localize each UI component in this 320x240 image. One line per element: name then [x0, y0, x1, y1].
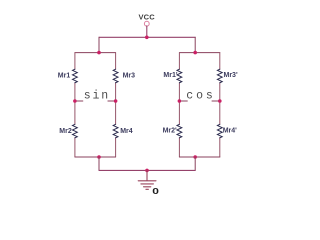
wire left bridge top feed — [98, 37, 100, 52]
resistor Mr4 — [113, 124, 118, 138]
wire right bridge left vertical — [178, 53, 180, 157]
wire right bridge top rail — [179, 52, 219, 54]
wire right bridge bottom feed — [194, 157, 196, 170]
wire top distribution rail — [99, 36, 195, 38]
ground — [138, 170, 156, 189]
wire left bridge bottom rail — [75, 156, 116, 158]
node right bridge bottom — [193, 155, 197, 159]
VCC terminal circle — [144, 21, 149, 26]
resistor Mr2 — [73, 124, 78, 138]
wire sin+ stub — [77, 100, 83, 102]
wire cos- stub — [212, 100, 218, 102]
wire left bridge left vertical — [74, 53, 76, 157]
svg-text:0: 0 — [152, 188, 159, 197]
node sin- — [114, 99, 118, 103]
resistor Mr1' — [177, 69, 182, 83]
svg-text:Mr2: Mr2 — [59, 128, 72, 135]
wire right bridge bottom rail — [179, 156, 219, 158]
svg-text:Mr4: Mr4 — [120, 128, 133, 135]
svg-text:Mr4': Mr4' — [223, 128, 237, 135]
resistor Mr2' — [177, 124, 182, 138]
resistor Mr3 — [113, 69, 118, 83]
node sin+ — [73, 99, 77, 103]
resistor Mr3' — [217, 69, 222, 83]
node cos- — [218, 99, 222, 103]
node cos+ — [178, 99, 182, 103]
wire left bridge right vertical — [115, 53, 117, 157]
wire VCC stem — [146, 26, 148, 37]
node right bridge top — [193, 51, 197, 55]
wire left bridge top rail — [75, 52, 116, 54]
wire bottom ground rail — [99, 169, 195, 171]
svg-text:Mr3: Mr3 — [123, 73, 136, 80]
wire right bridge top feed — [194, 37, 196, 52]
svg-text:Mr3': Mr3' — [224, 72, 238, 79]
wire right bridge right vertical — [219, 53, 221, 157]
node left bridge bottom — [97, 155, 101, 159]
wire left bridge bottom feed — [98, 157, 100, 170]
svg-text:VCC: VCC — [138, 12, 155, 21]
svg-text:sin: sin — [84, 89, 110, 102]
svg-text:cos: cos — [186, 89, 215, 102]
resistor Mr4' — [217, 124, 222, 138]
svg-text:Mr2': Mr2' — [163, 128, 177, 135]
svg-text:Mr1': Mr1' — [163, 72, 177, 79]
node ground junction — [145, 169, 149, 173]
node left bridge top — [97, 51, 101, 55]
wire cos+ stub — [181, 100, 187, 102]
svg-text:Mr1: Mr1 — [58, 73, 71, 80]
node VCC junction — [145, 36, 149, 40]
wire sin- stub — [108, 100, 114, 102]
resistor Mr1 — [73, 69, 78, 83]
